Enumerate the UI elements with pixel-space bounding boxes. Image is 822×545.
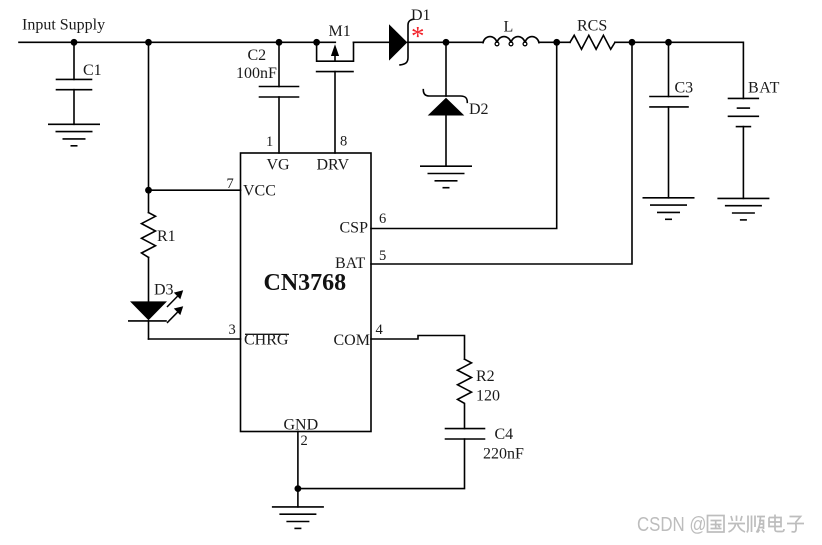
svg-text:120: 120 [476, 388, 500, 405]
svg-text:220nF: 220nF [483, 446, 524, 463]
svg-text:5: 5 [379, 248, 386, 264]
svg-text:VCC: VCC [243, 183, 276, 200]
svg-text:7: 7 [227, 176, 234, 192]
svg-text:VG: VG [267, 157, 291, 174]
svg-text:Input Supply: Input Supply [22, 17, 105, 34]
svg-text:C2: C2 [248, 47, 267, 64]
svg-text:8: 8 [340, 134, 347, 150]
svg-text:BAT: BAT [748, 80, 780, 97]
svg-text:6: 6 [379, 211, 386, 227]
svg-text:*: * [411, 21, 425, 51]
svg-text:C1: C1 [83, 62, 102, 79]
svg-text:D2: D2 [469, 101, 489, 118]
svg-text:DRV: DRV [317, 157, 350, 174]
svg-text:4: 4 [376, 322, 384, 338]
svg-text:D3: D3 [154, 282, 174, 299]
svg-text:L: L [504, 19, 514, 36]
svg-text:CN3768: CN3768 [264, 270, 347, 296]
svg-text:M1: M1 [329, 23, 351, 40]
svg-text:C3: C3 [675, 80, 694, 97]
svg-text:3: 3 [229, 322, 236, 338]
svg-text:RCS: RCS [577, 18, 607, 35]
svg-text:R2: R2 [476, 368, 495, 385]
svg-text:100nF: 100nF [236, 65, 277, 82]
svg-text:GND: GND [284, 417, 319, 434]
svg-text:R1: R1 [157, 228, 176, 245]
svg-text:C4: C4 [495, 426, 514, 443]
svg-text:1: 1 [266, 134, 273, 150]
svg-text:CSP: CSP [340, 220, 369, 237]
svg-text:CSDN @: CSDN @ [637, 513, 707, 536]
svg-text:COM: COM [334, 332, 370, 349]
svg-text:2: 2 [301, 433, 308, 449]
